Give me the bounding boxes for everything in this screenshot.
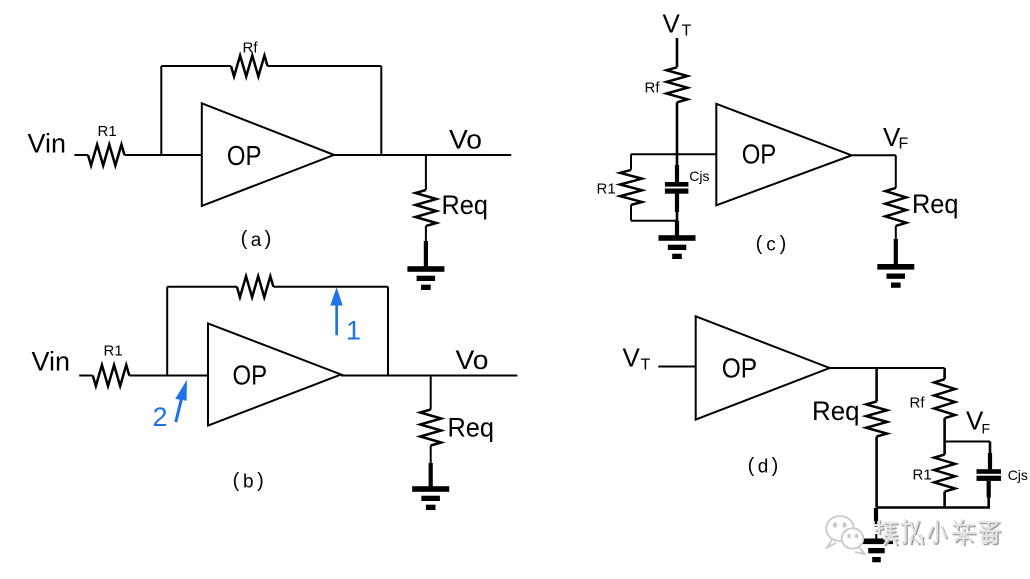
- capacitor Cjs stub bottom (c): [675, 193, 679, 212]
- svg-text:Req: Req: [812, 396, 860, 426]
- ground (b): [412, 486, 449, 510]
- watermark logo: [826, 516, 864, 554]
- capacitor Cjs (c): [665, 182, 689, 194]
- svg-text:Req: Req: [448, 413, 495, 443]
- svg-text:V: V: [623, 343, 641, 373]
- label (c): [756, 233, 787, 256]
- wire output (d): [830, 367, 945, 369]
- svg-text:): ): [772, 455, 779, 477]
- svg-text:OP: OP: [227, 140, 262, 171]
- op-amp OP (d): [696, 316, 830, 419]
- resistor R1 (c): [620, 170, 642, 205]
- resistor Rf (d): [934, 379, 955, 418]
- svg-text:F: F: [982, 421, 991, 437]
- svg-text:(: (: [748, 455, 755, 477]
- resistor R1 (d): [934, 455, 955, 492]
- capacitor Cjs (d): [977, 469, 1002, 481]
- wire to Req (c): [895, 155, 897, 188]
- wire to ground (c): [675, 221, 679, 236]
- capacitor Cjs stub bottom (d): [987, 481, 991, 498]
- wire Req to ground (c): [895, 226, 897, 240]
- ground right (c): [877, 264, 914, 288]
- wire feedback left vertical (b): [166, 287, 168, 376]
- wire feedback top (a): [161, 65, 381, 67]
- wire feedback top (b): [167, 286, 388, 288]
- label VT (c): [663, 9, 692, 40]
- ground (d): [860, 539, 893, 563]
- resistor Req (a): [415, 190, 436, 226]
- wire to Req (a): [425, 155, 427, 190]
- wire bottom joining R1 and Cjs (c): [631, 220, 677, 222]
- wire bottom rail (d): [877, 506, 990, 509]
- svg-text:Vo: Vo: [449, 125, 482, 155]
- label (a): [241, 228, 272, 251]
- resistor Req (d): [866, 402, 887, 437]
- svg-text:Rf: Rf: [910, 395, 926, 412]
- wire feedback right vertical (a): [380, 66, 382, 155]
- wire output (a): [334, 154, 511, 156]
- label (b): [233, 470, 264, 493]
- wire Req to ground (b): [430, 446, 432, 465]
- svg-text:Cjs: Cjs: [689, 168, 709, 184]
- svg-text:(: (: [233, 470, 240, 492]
- op-amp OP (a): [202, 103, 334, 206]
- arrow 2 (b): [174, 380, 187, 423]
- svg-text:c: c: [766, 235, 776, 256]
- svg-text:a: a: [251, 230, 262, 251]
- label (d): [748, 455, 779, 478]
- wire Vin input (a): [74, 154, 202, 156]
- svg-text:R1: R1: [597, 181, 616, 198]
- svg-text:Rf: Rf: [645, 80, 661, 97]
- wire R1 bottom (d): [943, 492, 946, 508]
- svg-text:R1: R1: [98, 123, 117, 140]
- resistor Rf (c): [667, 67, 688, 102]
- svg-text:R1: R1: [104, 343, 123, 360]
- resistor Req (b): [420, 410, 441, 446]
- resistor Req (c): [885, 188, 906, 226]
- svg-text:OP: OP: [722, 353, 757, 384]
- op-amp OP (b): [208, 323, 341, 425]
- wire feedback right vertical (b): [387, 287, 389, 376]
- svg-text:d: d: [758, 457, 769, 478]
- wire to ground (d): [875, 534, 877, 539]
- wire VT to Rf (c): [676, 38, 679, 67]
- svg-text:V: V: [663, 9, 681, 39]
- resistor R1 (b): [93, 365, 129, 386]
- arrow 1 (b): [330, 287, 342, 335]
- svg-text:2: 2: [153, 402, 168, 432]
- svg-text:b: b: [243, 472, 254, 493]
- capacitor Cjs stub top (d): [989, 442, 992, 455]
- wire Req to bottom (d): [875, 437, 878, 508]
- wire output (b): [341, 375, 517, 377]
- wire Rf to VF node (d): [943, 418, 946, 441]
- ground (a): [407, 266, 444, 290]
- wire node to OP input (c): [631, 153, 716, 155]
- wire to Req (d): [875, 368, 878, 402]
- svg-text:T: T: [682, 23, 692, 40]
- wire R1 stub (d): [943, 442, 946, 455]
- svg-text:OP: OP: [233, 360, 268, 391]
- svg-text:Cjs: Cjs: [1008, 467, 1028, 483]
- svg-text:(: (: [756, 233, 763, 255]
- wire Vin input (b): [79, 375, 208, 377]
- watermark text: [876, 520, 1001, 545]
- svg-text:T: T: [641, 357, 651, 374]
- svg-text:Rf: Rf: [243, 40, 259, 57]
- svg-text:R1: R1: [913, 467, 932, 484]
- svg-text:OP: OP: [742, 139, 777, 170]
- wire VF node horizontal (d): [945, 441, 990, 443]
- resistor R1 (a): [88, 145, 124, 166]
- capacitor Cjs stub top (c): [676, 154, 679, 166]
- svg-text:1: 1: [346, 316, 361, 346]
- resistor Rf (a): [231, 56, 267, 77]
- wire Req to ground (a): [425, 226, 427, 242]
- wire VT to OP (d): [658, 366, 695, 368]
- svg-text:): ): [257, 470, 264, 492]
- svg-text:Vo: Vo: [456, 345, 489, 375]
- svg-text:Vin: Vin: [32, 347, 71, 377]
- svg-text:): ): [265, 228, 272, 250]
- svg-text:Req: Req: [912, 189, 959, 219]
- wire Rf branch down (d): [943, 368, 946, 379]
- op-amp OP (c): [716, 104, 851, 206]
- resistor feedback (b): [237, 276, 273, 297]
- ground left (c): [659, 235, 696, 259]
- junction arrow (d): [874, 508, 878, 521]
- wire R1 bottom (c): [630, 205, 632, 221]
- svg-text:): ): [780, 233, 787, 255]
- wire output (c): [852, 154, 896, 156]
- wire feedback left vertical (a): [160, 66, 162, 155]
- label VT (d): [623, 343, 651, 374]
- wire R1 branch down (c): [630, 154, 632, 170]
- label VF (c): [883, 122, 909, 153]
- svg-text:Vin: Vin: [28, 129, 67, 159]
- svg-text:(: (: [241, 228, 248, 250]
- wire Rf to node (c): [676, 102, 679, 154]
- svg-text:F: F: [899, 136, 909, 153]
- svg-text:Req: Req: [442, 190, 489, 220]
- label VF (d): [966, 406, 990, 437]
- wire to Req (b): [430, 376, 432, 410]
